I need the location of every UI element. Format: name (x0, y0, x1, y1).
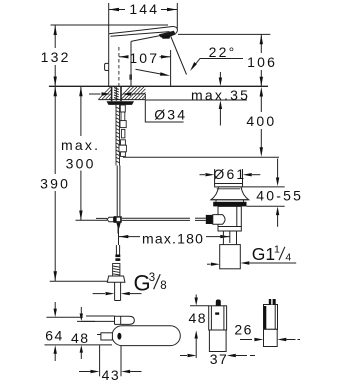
dim 390 line (54, 86, 56, 174)
svg-text:G1: G1 (252, 244, 275, 264)
dim 40-55 arrow bottom (277, 215, 279, 227)
control box A inner lines (210, 306, 212, 330)
popup waste dome flare (211, 187, 249, 200)
popup waste dome cap (215, 184, 243, 187)
dim 400 arrow top (260, 87, 263, 97)
water stream line 22deg (171, 37, 187, 75)
ext line G38 end level (50, 280, 108, 282)
dim G38 pipe arrows (93, 293, 105, 295)
svg-text:1: 1 (274, 244, 280, 256)
deck bottom line under text (146, 99, 247, 101)
svg-text:max.: max. (61, 137, 100, 153)
svg-text:144: 144 (129, 1, 159, 17)
dim max300 arrow top (79, 87, 82, 97)
dim 40-55 arrow top (277, 159, 279, 178)
popup waste thread pipe G114 (220, 245, 241, 269)
hose crimp bands (115, 255, 120, 258)
popup waste lever rod (195, 217, 206, 219)
svg-text:390: 390 (40, 176, 70, 192)
top view ext line 48 top (77, 320, 95, 322)
supply hose below rod (116, 166, 118, 217)
label G114 slash (279, 247, 285, 260)
control box A minus mark (215, 312, 219, 314)
svg-text:max.35: max.35 (191, 87, 250, 103)
dim 400 arrow bottom (260, 147, 263, 157)
deck hatch left (98, 87, 111, 100)
svg-text:64: 64 (45, 328, 64, 344)
popup waste dome ext lines (214, 169, 216, 184)
ext line top of spout (132 top) (51, 24, 169, 26)
dim 40-55 ext line top (243, 186, 285, 188)
dim G114 arrow left (207, 263, 211, 265)
dim 107 ext line right (170, 50, 172, 86)
faucet spout inner bevel line (111, 32, 170, 37)
dim 107 arrow left (119, 55, 128, 58)
dim 106 arrow bottom (260, 77, 263, 86)
ext line 64 bottom (45, 344, 113, 346)
control box A nipple (216, 300, 221, 306)
dim 390 arrow bottom (54, 271, 58, 281)
dim 107 arrow right (161, 55, 170, 58)
deck bottom line left under faucet (99, 99, 146, 101)
supply tee right arm hose (122, 217, 190, 219)
supply tee left lozenge (107, 217, 114, 222)
ext line spout tip level (106 top) (178, 33, 270, 35)
dim 132 line (54, 25, 56, 48)
pipe below nut (114, 282, 116, 300)
dim 43 arrows (79, 371, 91, 373)
mounting flange washer (107, 101, 135, 105)
dim 144 arrow right (167, 8, 177, 11)
dim max180 tick left (117, 225, 119, 233)
supply pipe to valve (118, 228, 120, 245)
svg-text:400: 400 (246, 113, 276, 129)
popup waste body (218, 206, 241, 226)
svg-text:300: 300 (66, 156, 96, 172)
dim 64 line (54, 302, 56, 310)
ext line supply tee level (76, 219, 97, 221)
dim 144 arrow left (109, 8, 119, 11)
dim max300 arrow bottom (79, 211, 82, 221)
dim 144 ext line right (176, 3, 178, 29)
svg-text:48: 48 (71, 330, 90, 346)
supply tee lower teardrop (116, 223, 120, 229)
hose connector stack right of rod (119, 105, 126, 156)
dim max180 arrow left (119, 235, 128, 238)
svg-text:43: 43 (102, 367, 121, 380)
control box B left stripe (264, 306, 267, 329)
dim G114 arrow right on leader (240, 261, 249, 264)
svg-text:Ø34: Ø34 (154, 107, 187, 123)
faucet aerator dark outlet (159, 31, 176, 38)
svg-text:4: 4 (285, 251, 291, 263)
dim O61 arrows (200, 174, 206, 176)
dim 107 line (119, 56, 127, 58)
svg-text:3: 3 (149, 272, 155, 284)
supply tee body (114, 216, 122, 223)
svg-text:max.180: max.180 (142, 231, 204, 247)
faucet aerator nub (162, 35, 171, 39)
popup waste bottom rim (218, 227, 241, 232)
popup waste lever block (206, 215, 213, 224)
dim 400 line (260, 92, 262, 112)
svg-text:40-55: 40-55 (256, 188, 303, 204)
popup waste neck (215, 200, 217, 202)
nut on G38 (107, 276, 125, 282)
popup waste gasket (213, 202, 246, 207)
hole dia arrows at deck (89, 93, 101, 95)
label G38 text (134, 271, 167, 296)
svg-text:Ø61: Ø61 (213, 166, 246, 182)
svg-text:37: 37 (210, 351, 229, 367)
dim 106 line (260, 34, 262, 53)
svg-text:106: 106 (247, 54, 277, 70)
dim 144 ext line left (108, 3, 110, 34)
leader arrow under spout head (160, 72, 170, 76)
top view left connection stub (101, 333, 113, 340)
control box A outer (209, 306, 227, 330)
svg-text:48: 48 (189, 310, 208, 326)
dim 132 arrow bottom (54, 77, 57, 87)
top view spout bump (115, 316, 135, 324)
svg-text:22°: 22° (209, 44, 237, 60)
control box B lower (264, 329, 278, 346)
popup waste tailpipe upper (222, 231, 224, 245)
control box B outer (264, 305, 278, 330)
dim 48tv line (80, 307, 82, 314)
drain centerline stub (229, 228, 231, 243)
faucet pillar back edge (108, 34, 110, 86)
leader arrow under spout (136, 69, 163, 74)
svg-text:8: 8 (160, 280, 166, 292)
svg-text:26: 26 (234, 322, 253, 338)
dim 48box line (195, 295, 197, 298)
faucet centerline dashed (118, 47, 120, 86)
deck top line (49, 85, 268, 87)
faucet pillar front edge (130, 41, 132, 86)
dim 26 arrows (240, 339, 252, 341)
deck hatch right (121, 87, 145, 100)
dim 40-55 ext line bottom (247, 205, 285, 207)
dim 390 arrow top (54, 87, 58, 97)
faucet shank threads below deck (112, 86, 121, 101)
dim max.35 arrow bottom (219, 108, 221, 126)
dim 144 line (109, 9, 125, 11)
dim max180 line (119, 236, 140, 238)
label 22deg leader (192, 59, 243, 69)
label 22deg leader arrowhead (190, 62, 197, 71)
dim 132 arrow top (54, 25, 57, 35)
label G38 slash (154, 274, 161, 289)
svg-text:132: 132 (41, 49, 71, 65)
threaded rod below flange (116, 105, 120, 166)
dim max300 line (80, 86, 82, 136)
dim 37 arrows (180, 355, 187, 357)
faucet spout underside (131, 33, 172, 41)
top view capsule body (112, 326, 180, 346)
top view sensor dot (117, 333, 121, 340)
faucet sensor tab on back edge (105, 63, 109, 70)
top view ext line 64 top (46, 316, 82, 318)
svg-text:107: 107 (129, 50, 159, 66)
faucet spout top edge (109, 27, 178, 34)
thread nipple G38 (113, 264, 120, 277)
label O34 bracket (145, 94, 183, 122)
control box B nipple (269, 299, 276, 305)
control box A lower (209, 330, 226, 352)
faucet front edge clip mark (129, 75, 132, 80)
supply tee left arm hose (96, 217, 107, 219)
ext line 48box top (190, 305, 209, 307)
dim max180 arrow right (220, 235, 229, 238)
control box B inner line (274, 305, 276, 330)
reference line at hose level (400 bottom) (123, 156, 279, 158)
top view spout stub (86, 315, 115, 317)
dim 43 ext lines (99, 346, 101, 377)
label G114 text (252, 244, 292, 265)
dim 106 arrow top (260, 35, 263, 45)
dim max.35 arrow top (219, 72, 221, 79)
popup waste lever barrel (213, 215, 225, 225)
